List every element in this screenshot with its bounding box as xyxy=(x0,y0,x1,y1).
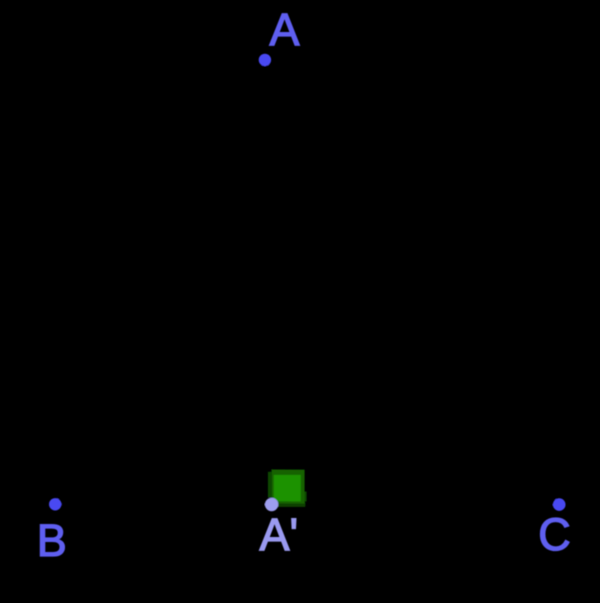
svg-text:A': A' xyxy=(260,509,299,560)
svg-text:B: B xyxy=(37,515,67,566)
wire: side AC xyxy=(265,60,559,505)
right-angle marker: bottom shadow xyxy=(272,502,305,507)
right-angle marker: right notch xyxy=(304,492,307,502)
node A' (foot of altitude) xyxy=(265,498,278,511)
svg-text:A: A xyxy=(269,4,299,55)
wire: side BC xyxy=(55,503,559,505)
right-angle marker: dark left strip xyxy=(268,472,272,498)
right-angle marker: square border xyxy=(272,470,305,504)
right-angle marker: square fill xyxy=(274,475,301,502)
wire: altitude AA' xyxy=(265,60,272,505)
node A xyxy=(259,54,271,66)
wire: side AB xyxy=(55,60,265,504)
node B xyxy=(49,498,61,510)
svg-text:C: C xyxy=(538,509,571,560)
node C xyxy=(553,498,566,511)
